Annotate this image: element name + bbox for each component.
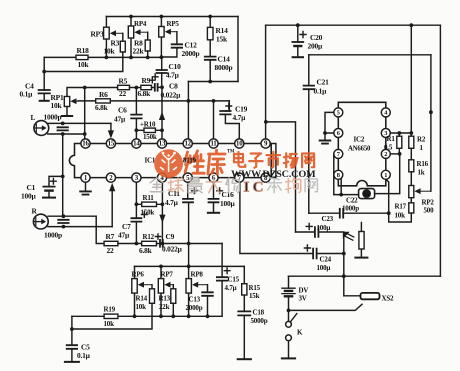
pin 14 IC1 [132,139,141,148]
wire pin8-pin9 bracket [270,144,276,178]
svg-text:150k: 150k [141,209,155,217]
svg-text:RP8: RP8 [191,271,204,279]
wire IC2 pin1 drop [386,179,389,213]
svg-text:2: 2 [384,151,387,158]
svg-text:22k: 22k [133,47,145,56]
capacitor C5 0.1u [71,316,73,361]
wire R hot [48,215,96,217]
capacitor C13 2000p [202,292,213,296]
motor M [359,189,375,199]
potentiometer RP3 [105,17,107,58]
svg-text:R18: R18 [77,46,90,55]
svg-text:100µ: 100µ [317,264,331,272]
pin 2 IC2 [381,149,390,158]
svg-text:C21: C21 [317,78,330,87]
pin 4 IC1 [157,173,166,182]
pin 12 IC1 [183,139,192,148]
svg-text:RP5: RP5 [167,20,180,28]
battery DV 3V [288,276,290,321]
svg-text:2000p: 2000p [182,49,200,58]
wire IC2 pin7 to motor [334,154,359,195]
resistor R14b 10k [150,289,155,304]
wire bottom of R14/C14 loop [188,60,238,82]
resistor R5 22 [118,85,130,89]
svg-text:C16: C16 [222,190,235,199]
wire R low to pin2 with up arrow [111,191,113,227]
svg-text:10k: 10k [395,212,406,220]
wire IC2 pin3 rail [390,132,411,134]
svg-text:RP2: RP2 [422,199,435,207]
resistor R1 0.5 [398,133,400,154]
svg-text:100µ: 100µ [21,192,36,201]
svg-text:15k: 15k [249,292,260,300]
pin 13 IC1 [157,139,166,148]
potentiometer RP2 500 [410,172,412,186]
svg-text:M: M [364,192,369,198]
svg-text:1: 1 [384,172,387,179]
resistor R14 15k [209,17,211,57]
pin 2 IC1 [106,173,115,182]
wire IC2 pins5+6 to ground [325,112,334,139]
pin 5 IC1 [183,173,192,182]
svg-text:1000p: 1000p [44,113,62,122]
capacitor C21 0.1u [308,55,310,213]
svg-text:R: R [32,207,38,216]
wire R low [48,226,112,228]
svg-text:10: 10 [236,141,243,148]
capacitor C16 100u [213,182,215,212]
svg-text:RP3: RP3 [91,30,104,39]
svg-text:RP6: RP6 [132,271,145,279]
svg-text:R15: R15 [249,284,261,292]
svg-text:16: 16 [82,141,89,148]
svg-text:R12: R12 [143,233,155,241]
resistor R17 10k [389,198,412,222]
svg-text:500: 500 [424,207,435,215]
svg-text:8119: 8119 [183,157,197,165]
wire L hot to pin15 [48,122,111,124]
svg-text:2000p: 2000p [186,304,203,312]
svg-text:1k: 1k [418,169,425,177]
op-amp IC2 AN6650 body [338,102,386,186]
svg-text:C8: C8 [169,82,178,91]
capacitor C19 4.7u [225,101,239,139]
resistor R15 15k [243,266,245,311]
watermark logo circle [154,149,183,178]
potentiometer RP6 [134,266,136,316]
capacitor C20 200u [297,25,299,56]
ground pin1 [85,182,87,191]
wire bottom rail [72,315,222,317]
svg-text:47µ: 47µ [114,115,126,124]
svg-text:0.1µ: 0.1µ [20,90,34,99]
pin 1 IC1 [81,173,90,182]
svg-text:4.7µ: 4.7µ [225,284,237,292]
svg-text:R19: R19 [104,306,116,314]
svg-text:R11: R11 [143,194,155,202]
wire IC2 pin2 rail [390,153,399,155]
resistor R16 1k [410,148,412,160]
svg-text:11: 11 [210,141,217,148]
jack XS1 with ground [360,223,362,257]
wire C11 branch to RP8 [188,244,190,279]
wire pin9net branch to C23 [266,122,296,232]
svg-text:C9: C9 [166,232,175,241]
wire C23/C24 common drop [343,236,345,296]
svg-text:XS2: XS2 [382,295,395,303]
svg-text:10k: 10k [104,320,115,328]
resistor R18 10k [44,56,161,58]
wire RP1 top to R5 [67,88,118,97]
pin 6 IC1 [209,173,218,182]
capacitor C12 2000p [161,32,177,57]
wire L/R coupling vertical [62,134,64,216]
svg-text:200µ: 200µ [308,42,323,51]
svg-text:1000p: 1000p [342,205,359,213]
svg-text:6.8k: 6.8k [138,89,152,98]
svg-text:4.7µ: 4.7µ [165,198,179,207]
svg-text:R13: R13 [159,295,171,303]
watermark text dian-zi-shi-chang-wang [234,152,245,167]
capacitor C4 0.1u [43,57,45,100]
svg-text:C13: C13 [189,296,201,304]
capacitor C9 0.022u [160,240,163,247]
connector XS2 [344,295,361,297]
resistor R13 22k [171,289,176,304]
resistor R9 6.8k [141,85,152,89]
wire pin11 vertical [213,101,215,139]
svg-text:R5: R5 [119,77,128,86]
svg-text:K: K [297,329,303,337]
svg-text:+R10: +R10 [140,120,156,128]
svg-text:14: 14 [133,141,140,148]
capacitor C24 100u [313,249,317,259]
resistor R7 22 [104,241,118,245]
jack R [33,214,48,229]
svg-text:10k: 10k [136,303,147,311]
capacitor C14 8000p [205,57,216,60]
svg-text:IC2: IC2 [354,136,365,144]
svg-text:100µ: 100µ [317,224,331,232]
wire top rail right [266,24,441,26]
resistor R6 6.8k [78,100,229,102]
svg-text:DV: DV [299,287,309,295]
svg-text:22: 22 [119,89,126,98]
wire right edge B+ [439,25,441,276]
wire pin16 vertical [84,88,86,139]
pin 3 IC2 [381,129,390,138]
svg-text:10k: 10k [78,60,90,69]
svg-text:1000p: 1000p [44,231,62,240]
wire R hot to R7 [96,216,104,243]
wire pin9 to top rail [265,25,267,139]
watermark text wei-ku [185,151,204,173]
pin 1 IC2 [381,170,390,179]
svg-text:RP7: RP7 [161,271,174,279]
svg-text:12: 12 [184,141,191,148]
pin 16 IC1 [81,139,90,148]
potentiometer RP7 [160,266,162,316]
capacitor C6 47u [135,88,137,139]
svg-text:3V: 3V [299,295,307,303]
plug arrow at C23 [343,232,350,239]
capacitor C1 100u [49,176,63,196]
svg-text:C22: C22 [346,197,358,205]
pin 4 IC2 [381,108,390,117]
svg-text:0.022µ: 0.022µ [161,91,182,100]
wire pin3 vertical [135,182,137,218]
pin 11 IC1 [209,139,218,148]
node top rail junctions [129,15,133,19]
pin 5 IC2 [334,108,343,117]
svg-text:4.7µ: 4.7µ [166,71,180,80]
resistor R3 10k [120,41,125,52]
pin 8 IC1 [261,173,270,182]
pin 10 IC1 [235,139,244,148]
switch K [286,321,292,327]
svg-text:R2: R2 [417,136,426,144]
svg-text:R6: R6 [99,90,108,99]
wire L low to pin16 line [48,133,85,135]
pin 3 IC1 [132,173,141,182]
svg-text:8: 8 [337,172,340,179]
wire right edge of R14 box loop [237,17,239,82]
wire motor to pin2 net [375,154,400,194]
svg-text:6.8k: 6.8k [95,103,109,112]
wire C14-loop to pin12 [187,82,189,139]
svg-text:0.1µ: 0.1µ [314,87,328,96]
potentiometer RP8 [186,279,191,294]
resistor R2 1 [410,25,412,136]
svg-text:R7: R7 [106,232,115,241]
potentiometer RP1 10k [64,97,69,107]
svg-text:C23: C23 [322,215,334,223]
svg-text:L: L [31,113,36,122]
capacitor C11 4.7u [187,182,190,243]
pin 8 IC2 [334,170,343,179]
wire pot bank rail [135,265,245,267]
svg-text:150k: 150k [143,133,157,141]
svg-text:22: 22 [107,246,114,255]
capacitor C18 5000p [238,311,250,315]
svg-text:I C: I C [244,180,264,196]
svg-text:IC1: IC1 [145,157,156,165]
pin 7 IC2 [334,149,343,158]
svg-text:AN6650: AN6650 [348,146,371,153]
pin 6 IC2 [334,129,343,138]
wire battery rail [289,275,441,277]
wire top rail left [106,16,238,18]
svg-text:22k: 22k [159,303,170,311]
wire pin7 to C24 [240,182,313,253]
svg-text:0.022µ: 0.022µ [162,245,183,254]
svg-text:RP4: RP4 [134,20,147,28]
capacitor C22 1000p [340,209,343,218]
svg-text:8000p: 8000p [215,63,233,72]
svg-text:10k: 10k [104,47,116,56]
svg-text:6.8k: 6.8k [139,246,153,255]
pin 15 IC1 [106,139,115,148]
resistor R10 150k [136,129,162,131]
wire inner top [309,54,431,56]
svg-text:15k: 15k [216,35,228,44]
op-amp IC1 body (CX8119) [69,144,271,178]
svg-text:10k: 10k [51,101,63,110]
capacitor C7 47u [131,218,141,221]
svg-text:5000p: 5000p [251,317,268,325]
potentiometer RP5 [160,17,162,58]
wire pin4 vertical with down arrow [161,182,163,243]
watermark gray slogan row [150,178,163,192]
svg-text:5: 5 [337,110,340,117]
capacitor C8 0.022u [155,84,158,91]
pin 7 IC1 [235,173,244,182]
wire pin13 vertical with up arrow [161,87,163,139]
svg-text:C6: C6 [118,106,127,115]
svg-text:R1: R1 [387,135,396,143]
resistor R12 6.8k [142,241,157,245]
capacitor C15 4.7u [221,244,223,317]
wire IC2 pin8 stub [340,179,342,195]
svg-text:15: 15 [108,141,115,148]
resistor R8 22k [145,40,150,51]
svg-text:R16: R16 [417,160,429,168]
svg-text:C18: C18 [253,309,265,317]
wire battery to XS2 switch arm [289,304,363,310]
resistor R11 150k [136,203,162,205]
potentiometer RP4 [130,17,132,58]
capacitor C23 100u [315,227,319,237]
svg-text:13: 13 [159,141,166,148]
svg-text:0.5: 0.5 [384,144,393,152]
svg-text:0.1µ: 0.1µ [77,351,91,360]
svg-text:100µ: 100µ [220,199,235,208]
svg-text:C15: C15 [228,276,240,284]
svg-text:4.7µ: 4.7µ [233,113,247,122]
capacitor C10 4.7u [161,57,163,87]
svg-text:C24: C24 [320,256,332,264]
svg-text:R14: R14 [136,295,148,303]
svg-text:47µ: 47µ [118,231,130,240]
wire pin15 drop with arrow [110,123,112,130]
jack L [34,121,49,136]
wire pin4-IC2 right riser [430,55,432,191]
svg-text:R17: R17 [395,203,407,211]
pin 9 IC1 [261,139,270,148]
